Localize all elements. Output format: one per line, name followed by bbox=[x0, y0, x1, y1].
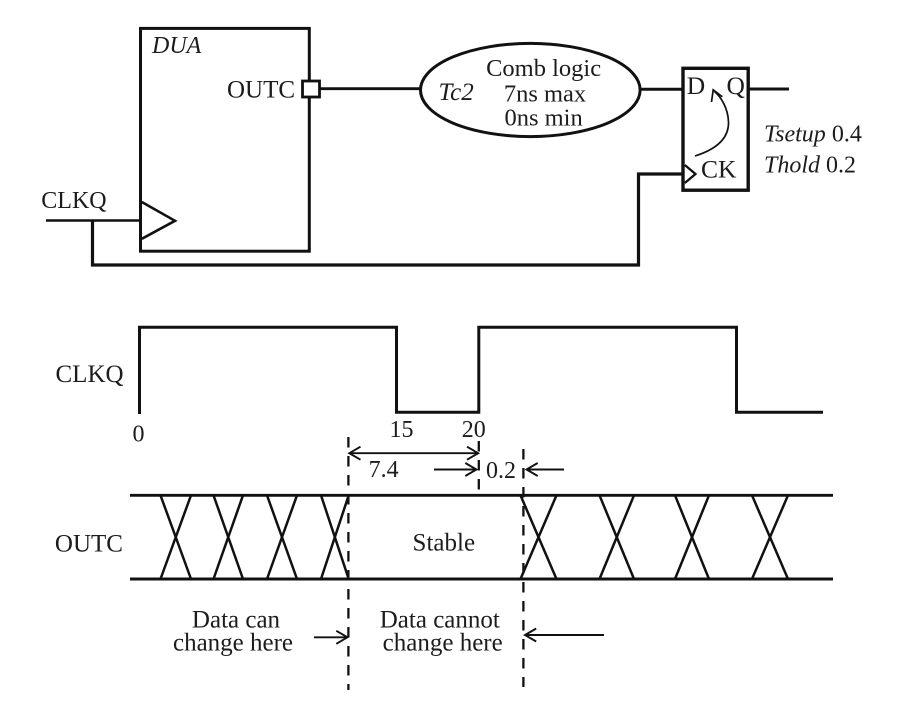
svg-text:CLKQ: CLKQ bbox=[41, 188, 106, 214]
DUA clock triangle bbox=[142, 202, 175, 239]
svg-text:Tsetup 0.4: Tsetup 0.4 bbox=[764, 121, 862, 147]
svg-text:Tc2: Tc2 bbox=[439, 79, 474, 106]
wire OUTC to comb logic bbox=[320, 87, 422, 90]
svg-text:7.4: 7.4 bbox=[369, 457, 399, 483]
CLKQ waveform bbox=[140, 327, 824, 414]
arrow data can change bbox=[314, 636, 346, 638]
svg-text:change here: change here bbox=[173, 630, 293, 657]
svg-text:0: 0 bbox=[133, 422, 145, 448]
CK-to-Q internal arrow bbox=[695, 92, 729, 157]
DUA block U1 bbox=[141, 28, 310, 251]
svg-text:change here: change here bbox=[383, 630, 503, 657]
svg-text:CK: CK bbox=[701, 155, 737, 184]
arrow to hold end (0.2 right) bbox=[528, 469, 565, 471]
svg-text:7ns max: 7ns max bbox=[504, 81, 586, 108]
dashed line at hold end bbox=[522, 449, 524, 687]
wire CLKQ feedback to CK bbox=[93, 174, 684, 265]
transition X 4 bbox=[321, 495, 349, 579]
svg-text:15: 15 bbox=[390, 417, 414, 443]
flip-flop U2 bbox=[683, 68, 748, 190]
OUTC port square bbox=[303, 81, 320, 97]
wire Q output bbox=[748, 88, 789, 91]
CK-to-Q arrowhead bbox=[712, 90, 723, 102]
svg-text:OUTC: OUTC bbox=[227, 77, 295, 104]
wire comb logic to D bbox=[640, 88, 683, 91]
svg-text:Q: Q bbox=[727, 71, 745, 100]
svg-text:0.2: 0.2 bbox=[486, 458, 516, 484]
transition X 6 bbox=[600, 495, 635, 579]
svg-text:Comb logic: Comb logic bbox=[486, 55, 601, 82]
comb logic ellipse bbox=[421, 43, 641, 136]
OUTC bus top line bbox=[130, 494, 833, 497]
arrow data cannot change bbox=[527, 634, 604, 636]
transition X 1 bbox=[161, 495, 192, 579]
dashed line at clock edge 20 bbox=[478, 441, 480, 490]
svg-text:20: 20 bbox=[462, 417, 486, 443]
transition X 5 bbox=[521, 495, 557, 579]
transition X 8 bbox=[752, 495, 788, 579]
svg-text:CLKQ: CLKQ bbox=[56, 361, 124, 388]
CK clock triangle bbox=[685, 165, 696, 183]
svg-text:OUTC: OUTC bbox=[55, 531, 123, 558]
dimension arrow 7.4 bbox=[350, 452, 478, 454]
svg-text:Stable: Stable bbox=[413, 530, 476, 557]
transition X 7 bbox=[675, 495, 709, 579]
transition X 3 bbox=[267, 495, 297, 579]
svg-text:Thold 0.2: Thold 0.2 bbox=[764, 152, 856, 178]
svg-text:DUA: DUA bbox=[151, 33, 202, 59]
wire CLKQ input bbox=[46, 219, 142, 222]
arrow to clock edge (0.2 left) bbox=[434, 469, 476, 471]
transition X 2 bbox=[214, 495, 244, 579]
svg-text:D: D bbox=[687, 71, 705, 100]
svg-text:0ns min: 0ns min bbox=[504, 105, 582, 132]
OUTC bus bottom line bbox=[130, 578, 833, 581]
dashed line at stable start bbox=[347, 437, 349, 690]
